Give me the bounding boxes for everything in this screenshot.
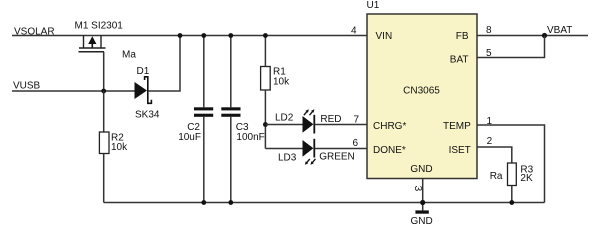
LED LD2 xyxy=(265,109,367,133)
wire TEMP xyxy=(477,125,545,203)
pin 3 label xyxy=(412,186,423,192)
svg-text:10k: 10k xyxy=(273,77,290,88)
label Ma xyxy=(122,50,136,61)
node junction bottom/GND xyxy=(420,200,425,205)
svg-text:U1: U1 xyxy=(367,0,380,11)
svg-text:2K: 2K xyxy=(520,173,533,184)
resistor R2 xyxy=(99,91,109,203)
node VBAT xyxy=(547,25,572,36)
label LD2 xyxy=(275,113,294,124)
svg-text:GND: GND xyxy=(410,216,432,227)
capacitor C3 xyxy=(221,36,240,203)
svg-text:LD2: LD2 xyxy=(275,113,294,124)
node junction rail/C2 xyxy=(201,33,206,38)
wire VBAT to BAT xyxy=(477,36,545,58)
svg-text:CHRG*: CHRG* xyxy=(373,121,406,132)
label R2 xyxy=(111,133,124,144)
wire ISET xyxy=(477,147,512,163)
label R3 xyxy=(520,165,533,176)
value label 2K xyxy=(520,173,533,184)
wire GND pin xyxy=(422,179,424,211)
svg-text:2: 2 xyxy=(487,136,493,147)
label C2 xyxy=(187,122,200,133)
value label SK34 xyxy=(135,109,160,120)
svg-text:D1: D1 xyxy=(137,66,150,77)
label R1 xyxy=(273,67,286,78)
value label 10k xyxy=(273,77,290,88)
node junction rail/diode xyxy=(178,33,183,38)
transistor M1 xyxy=(79,36,106,52)
diode D1 xyxy=(135,77,152,104)
node junction VBAT xyxy=(542,33,547,38)
wire FB to VBAT xyxy=(477,35,588,37)
pin 8 label xyxy=(486,25,492,36)
capacitor C2 xyxy=(194,36,213,203)
label Ra xyxy=(490,171,503,182)
svg-text:DONE*: DONE* xyxy=(373,145,406,156)
wire cathode to riser xyxy=(148,36,180,92)
label RED xyxy=(320,114,341,125)
svg-text:VUSB: VUSB xyxy=(13,81,41,92)
svg-text:FB: FB xyxy=(456,31,469,42)
svg-text:1: 1 xyxy=(487,116,493,127)
label GREEN xyxy=(319,152,355,163)
svg-text:5: 5 xyxy=(486,48,492,59)
node VUSB xyxy=(13,81,41,92)
LED LD3 xyxy=(265,139,367,165)
node junction rail/R1 xyxy=(263,33,268,38)
svg-text:ISET: ISET xyxy=(449,145,471,156)
node junction VUSB/gate xyxy=(101,89,106,94)
node VSOLAR xyxy=(14,26,55,37)
label LD3 xyxy=(278,152,297,163)
pin 7 label xyxy=(353,114,359,125)
svg-text:C3: C3 xyxy=(236,122,249,133)
op-amp U1 CN3065 xyxy=(367,14,477,179)
pin 6 label xyxy=(352,138,358,149)
wire xyxy=(12,90,136,92)
svg-text:VBAT: VBAT xyxy=(547,25,572,36)
wire gate down xyxy=(103,52,105,91)
value label 10uF xyxy=(178,132,201,143)
svg-text:7: 7 xyxy=(353,114,359,125)
svg-text:Ma: Ma xyxy=(122,50,136,61)
wire xyxy=(12,35,367,37)
pin 2 label xyxy=(487,136,493,147)
label U1 xyxy=(367,0,380,11)
pin 4 label xyxy=(351,25,357,36)
svg-text:C2: C2 xyxy=(187,122,200,133)
value label 10k xyxy=(111,142,128,153)
svg-text:RED: RED xyxy=(320,114,341,125)
svg-text:CN3065: CN3065 xyxy=(403,86,440,97)
svg-text:10uF: 10uF xyxy=(178,132,201,143)
svg-text:Ra: Ra xyxy=(490,171,503,182)
svg-text:4: 4 xyxy=(351,25,357,36)
label D1 xyxy=(137,66,150,77)
svg-text:M1 SI2301: M1 SI2301 xyxy=(75,21,124,32)
label M1 SI2301 xyxy=(75,21,124,32)
wire bottom rail xyxy=(104,202,545,204)
svg-text:SK34: SK34 xyxy=(135,109,160,120)
node junction rail/C3 xyxy=(228,33,233,38)
pin 5 label xyxy=(486,48,492,59)
svg-text:100nF: 100nF xyxy=(236,132,264,143)
node junction bottom/C3 xyxy=(228,200,233,205)
svg-text:VIN: VIN xyxy=(376,31,393,42)
node junction bottom/R3 xyxy=(509,200,514,205)
ground xyxy=(410,210,432,227)
node junction R1/LD2 xyxy=(263,122,268,127)
value label 100nF xyxy=(236,132,264,143)
svg-text:GND: GND xyxy=(410,164,432,175)
resistor R1 xyxy=(261,36,271,149)
svg-text:TEMP: TEMP xyxy=(443,121,471,132)
svg-text:8: 8 xyxy=(486,25,492,36)
svg-text:6: 6 xyxy=(352,138,358,149)
svg-text:3: 3 xyxy=(412,186,423,192)
node junction bottom/C2 xyxy=(201,200,206,205)
svg-text:LD3: LD3 xyxy=(278,152,297,163)
svg-text:GREEN: GREEN xyxy=(319,152,355,163)
svg-text:BAT: BAT xyxy=(450,55,469,66)
label C3 xyxy=(236,122,249,133)
pin 1 label xyxy=(487,116,493,127)
resistor R3 xyxy=(508,163,517,203)
svg-text:10k: 10k xyxy=(111,142,128,153)
